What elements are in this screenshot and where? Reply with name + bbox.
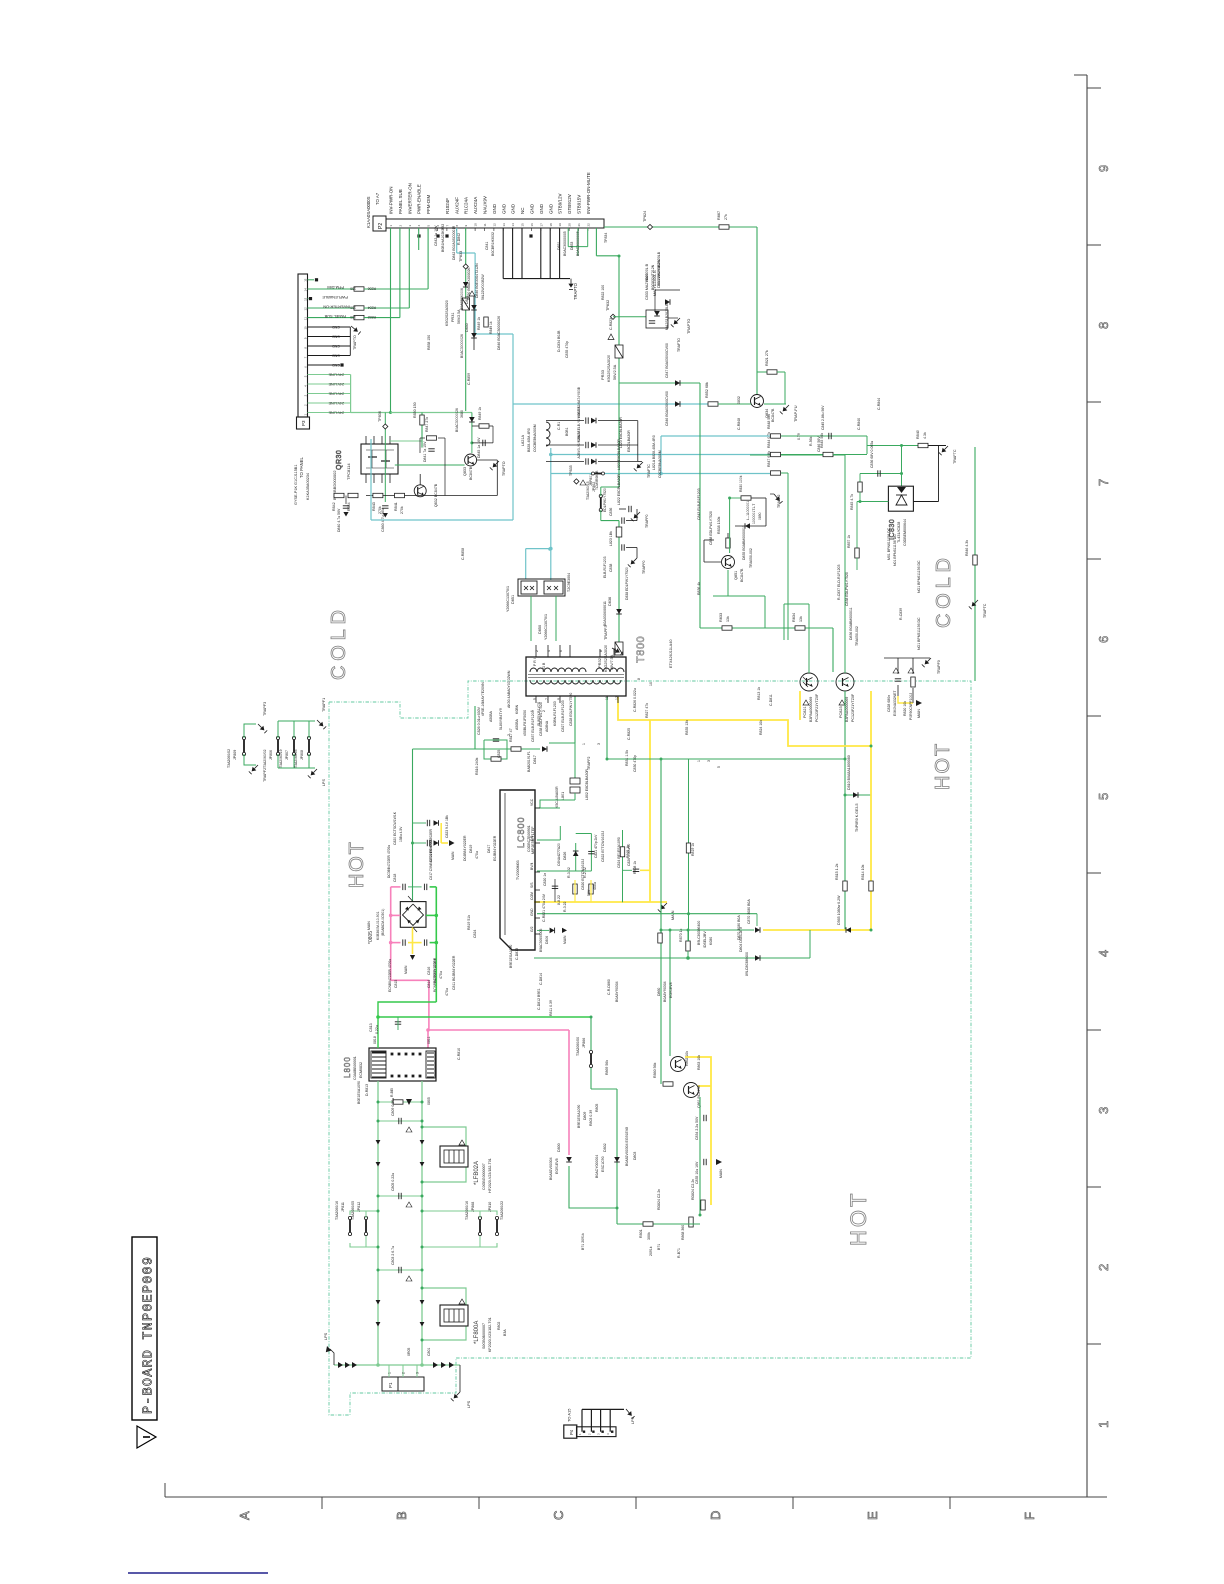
svg-text:LPS: LPS [467,1400,471,1408]
svg-text:ELB-R1F1203: ELB-R1F1203 [603,556,607,578]
svg-text:RD824 C2.2v: RD824 C2.2v [657,1189,661,1210]
svg-text:2091k: 2091k [649,1246,653,1256]
svg-text:24V-LINE: 24V-LINE [328,382,344,386]
svg-text:100: 100 [350,306,356,310]
svg-text:C820 ECTSCW1W1K: C820 ECTSCW1W1K [393,811,397,845]
svg-text:12: 12 [492,223,496,227]
svg-text:TP835: TP835 [569,465,573,476]
svg-text:TNP0R0 K.GE3-5: TNP0R0 K.GE3-5 [855,803,859,832]
svg-text:P0R90CNPF100J: P0R90CNPF100J [909,693,913,720]
svg-text:B0A82V00304 EG91EV8: B0A82V00304 EG91EV8 [625,1127,629,1166]
svg-text:11: 11 [304,317,308,320]
svg-text:T3A2060/00: T3A2060/00 [576,1037,580,1056]
svg-text:50V: 50V [587,889,591,896]
svg-text:R867: R867 [717,211,721,220]
svg-text:INV-PWR-ON-MUTE: INV-PWR-ON-MUTE [586,172,591,214]
svg-text:2: 2 [507,734,511,736]
svg-text:JP810: JP810 [488,1202,492,1212]
svg-text:D851: D851 [557,242,561,250]
svg-text:R852 68k: R852 68k [705,382,709,398]
svg-text:C-D812 B9E1: C-D812 B9E1 [537,988,541,1010]
svg-text:C841: C841 [485,242,489,250]
svg-text:R844 0.7k: R844 0.7k [767,432,771,448]
svg-text:R862 10k: R862 10k [685,1051,689,1066]
svg-text:C-R840: C-R840 [857,418,861,430]
svg-text:R819 51k: R819 51k [467,915,471,930]
svg-text:C823 9.1V 1Bk: C823 9.1V 1Bk [445,815,449,838]
svg-text:B0A030X00011: B0A030X00011 [603,601,607,626]
svg-text:TPC8114: TPC8114 [346,463,351,480]
svg-text:L800: L800 [343,1056,352,1078]
svg-text:R850 150: R850 150 [413,402,417,418]
svg-text:TRAFTC: TRAFTC [647,464,651,478]
svg-text:C835 10u 16V: C835 10u 16V [695,1161,699,1184]
svg-text:R833: R833 [719,613,723,622]
svg-text:R863 10k: R863 10k [697,1055,701,1070]
svg-text:R820 10k: R820 10k [903,701,907,716]
svg-text:NAUX9V: NAUX9V [483,196,488,214]
svg-text:R-56k: R-56k [809,436,813,446]
svg-text:PANEL SUB: PANEL SUB [398,189,403,214]
svg-text:D-C834 B0JB: D-C834 B0JB [557,330,561,352]
svg-text:JP807: JP807 [285,750,289,760]
svg-text:DC0BB4722ER 4700u: DC0BB4722ER 4700u [387,845,391,878]
svg-text:56V/2.5A: 56V/2.5A [613,364,617,380]
svg-text:C809 0.39u: C809 0.39u [391,1098,395,1116]
svg-text:7: 7 [1096,479,1111,486]
svg-text:P3: P3 [301,420,306,426]
svg-text:TRAPF2: TRAPF2 [777,495,781,508]
svg-text:R815 1.2k: R815 1.2k [835,863,839,880]
svg-text:EG91EV8: EG91EV8 [669,982,673,998]
svg-text:PWR-ENABLE: PWR-ENABLE [322,295,348,300]
svg-text:LPS: LPS [322,778,326,786]
svg-text:GND: GND [501,203,506,214]
svg-text:14: 14 [304,288,308,292]
svg-text:D817: D817 [533,755,537,764]
svg-text:T3A2060/02: T3A2060/02 [227,749,231,768]
svg-text:T3A2060/19: T3A2060/19 [279,749,283,768]
svg-text:PFM-DIM: PFM-DIM [327,285,344,290]
svg-text:10: 10 [304,326,308,330]
svg-text:C838 EDLPW1Y7520: C838 EDLPW1Y7520 [539,702,543,736]
svg-text:C825: C825 [497,750,501,758]
svg-text:5L80Y/B4TY9: 5L80Y/B4TY9 [499,708,503,730]
svg-text:E0K0NA332NET: E0K0NA332NET [893,691,897,716]
svg-text:T3A2060/16: T3A2060/16 [335,1201,339,1220]
svg-text:C828 E0LPW1Y7520: C828 E0LPW1Y7520 [569,693,573,726]
svg-text:S0GB0B000007: S0GB0B000007 [482,1323,486,1349]
svg-text:C0DBEM000644: C0DBEM000644 [903,519,907,546]
svg-text:T3A2060/02: T3A2060/02 [263,749,267,768]
svg-text:D830 B0ACX000026: D830 B0ACX000026 [467,267,471,300]
svg-text:K1KA35A00234: K1KA35A00234 [306,473,310,500]
svg-text:PR32: PR32 [597,657,602,668]
svg-text:C838 EDLPW1Y7520: C838 EDLPW1Y7520 [845,572,849,606]
svg-text:T2C9E3004: T2C9E3004 [567,573,571,592]
svg-text:D: D [708,1511,723,1520]
svg-text:9: 9 [557,698,561,700]
svg-text:R846 4.3k: R846 4.3k [965,540,969,556]
svg-text:1: 1 [582,743,586,745]
svg-text:LC800: LC800 [516,816,526,848]
svg-text:MAIN: MAIN [451,851,455,860]
svg-text:TRA050-002: TRA050-002 [855,626,859,646]
svg-text:PC821: PC821 [803,706,807,718]
svg-text:P2: P2 [378,223,384,229]
svg-text:GND: GND [539,203,544,214]
svg-text:B?1 2091k: B?1 2091k [581,1233,585,1250]
svg-text:B0AC30000026: B0AC30000026 [455,408,459,432]
svg-text:24V-LINE: 24V-LINE [328,372,344,376]
svg-text:R856: R856 [368,287,376,291]
svg-text:BAB20191F1: BAB20191F1 [527,751,531,772]
svg-text:TRAPTO: TRAPTO [502,461,506,476]
svg-text:AUX24F: AUX24F [454,197,459,214]
svg-text:D836 B0ABM000011: D836 B0ABM000011 [849,607,853,640]
svg-text:N01 BPN611156 DC: N01 BPN611156 DC [893,534,897,566]
svg-text:R813 1k: R813 1k [757,687,761,700]
svg-text:5: 5 [717,766,721,768]
svg-text:MAIN: MAIN [671,910,675,920]
svg-text:L823 E8CBLBA30R: L823 E8CBLBA30R [619,417,623,448]
svg-text:T800: T800 [635,636,647,663]
svg-text:S/S: S/S [530,882,534,888]
svg-text:C805 0.22u: C805 0.22u [391,1173,395,1191]
svg-text:B3PAA0000069: B3PAA0000069 [845,697,849,722]
svg-text:K5CJLBA00R: K5CJLBA00R [555,786,559,808]
svg-text:C814 B0HB84702ER: C814 B0HB84702ER [429,828,433,862]
svg-text:EDLPW1Y7520: EDLPW1Y7520 [603,488,607,512]
svg-text:ETX426J11LA40: ETX426J11LA40 [669,640,673,668]
svg-text:3680: 3680 [460,410,464,418]
svg-text:D800: D800 [557,1143,561,1152]
svg-text:R848 56k: R848 56k [767,414,771,429]
svg-text:KF2020-V23/182-T01: KF2020-V23/182-T01 [488,1317,492,1352]
svg-text:D851: D851 [511,595,515,604]
svg-text:K080: K080 [709,937,713,945]
svg-text:D840 4.7u 56V: D840 4.7u 56V [337,508,341,532]
svg-text:G/2: G/2 [530,926,534,932]
svg-text:D870 3080 B0A: D870 3080 B0A [737,915,741,940]
svg-text:C870 3080 B0A: C870 3080 B0A [747,899,751,924]
svg-text:NC: NC [520,207,525,214]
svg-text:Q833: Q833 [463,467,467,476]
svg-text:B3PAA0000069: B3PAA0000069 [809,697,813,722]
svg-text:M01 BPN611156 DC: M01 BPN611156 DC [887,527,891,560]
svg-text:C-R821 470u 24V: C-R821 470u 24V [542,893,546,922]
svg-text:JP808: JP808 [300,750,304,760]
svg-text:R849 1k: R849 1k [489,321,493,334]
svg-text:22: 22 [586,223,590,227]
svg-text:TP833: TP833 [459,251,463,262]
svg-text:19: 19 [558,223,562,227]
svg-text:R-3.02: R-3.02 [567,867,571,878]
svg-text:6: 6 [1096,636,1111,643]
svg-text:R852: R852 [368,315,376,319]
svg-text:24V-LINE: 24V-LINE [328,410,344,414]
svg-text:D802: D802 [603,1143,607,1152]
svg-text:R840: R840 [916,430,920,439]
svg-text:P-BOARD TNP0EP009: P-BOARD TNP0EP009 [142,1256,157,1414]
svg-text:K5G2S2SA3020: K5G2S2SA3020 [445,300,449,326]
svg-text:B: B [394,1511,409,1520]
svg-text:K0B360M-010-901: K0B360M-010-901 [376,911,380,940]
svg-text:C-R810: C-R810 [457,1048,461,1060]
svg-text:R1C24A: R1C24A [464,197,469,214]
svg-text:C803 2 6.7u: C803 2 6.7u [391,1246,395,1265]
svg-text:0R05: 0R05 [407,1348,411,1356]
svg-text:TRA050-002: TRA050-002 [749,548,753,568]
svg-text:INV-PWR-ON: INV-PWR-ON [389,187,394,215]
svg-text:R802: R802 [497,1322,501,1330]
svg-text:27k: 27k [724,214,728,220]
svg-text:R849 1k: R849 1k [478,407,482,420]
svg-text:TO PANEL: TO PANEL [299,457,304,478]
svg-text:89LC80386400: 89LC80386400 [745,952,749,976]
svg-text:C842 1u 16V: C842 1u 16V [434,225,438,246]
svg-text:#50BLF81F5050: #50BLF81F5050 [523,710,527,736]
svg-text:6: 6 [559,650,563,652]
svg-text:11: 11 [605,696,609,700]
svg-text:0811: 0811 [427,1036,431,1044]
svg-text:JP868: JP868 [471,1202,475,1212]
svg-text:B0E1E0A1090: B0E1E0A1090 [357,1081,361,1104]
svg-text:JP809: JP809 [233,750,237,760]
svg-text:1: 1 [697,760,701,762]
svg-text:C835 470p: C835 470p [565,341,569,358]
svg-text:HOT: HOT [932,742,954,790]
svg-text:L821A: L821A [521,435,525,446]
svg-text:15: 15 [521,223,525,227]
svg-text:HOT: HOT [346,840,368,888]
svg-text:470u: 470u [475,851,479,859]
svg-text:T3A2060/05: T3A2060/05 [351,1201,355,1220]
svg-text:B0B1HA102KBB2: B0B1HA102KBB2 [441,224,445,252]
svg-text:C: C [551,1511,566,1520]
svg-text:C-R848: C-R848 [737,418,741,430]
svg-text:L--11000001: L--11000001 [746,501,750,520]
svg-text:C6NA4Z77A20: C6NA4Z77A20 [557,843,561,866]
svg-text:E8C0LBA30R: E8C0LBA30R [627,430,631,452]
svg-text:B0A8Y90304: B0A8Y90304 [663,981,667,1002]
svg-text:HF2020-V23/182-T01: HF2020-V23/182-T01 [488,1158,492,1193]
svg-text:4: 4 [1096,950,1111,957]
svg-text:56L22W000B2W: 56L22W000B2W [657,259,661,286]
svg-text:P R I: P R I [533,658,537,666]
svg-text:270k: 270k [400,506,404,514]
svg-text:TRAPF3: TRAPF3 [263,702,267,716]
svg-text:13: 13 [502,223,506,227]
svg-text:56L22W000B2W: 56L22W000B2W [481,274,485,300]
svg-text:GND: GND [530,908,534,916]
svg-text:C836 68V 0.065u: C836 68V 0.065u [870,441,874,468]
svg-text:R-B71: R-B71 [677,1248,681,1258]
svg-text:D809: D809 [583,1112,587,1120]
svg-text:C845 2.86u 56V: C845 2.86u 56V [821,405,825,430]
svg-text:GTB912V: GTB912V [567,194,572,214]
svg-text:R858 150: R858 150 [427,335,431,350]
svg-text:R834: R834 [792,613,796,622]
svg-text:R849 1k: R849 1k [477,317,481,330]
svg-text:C814: C814 [427,980,431,988]
svg-text:TRAFTC: TRAFTC [953,449,957,464]
svg-text:C834 2.2u 50V: C834 2.2u 50V [695,1116,699,1140]
svg-text:1000001T1-T: 1000001T1-T [752,504,756,524]
svg-text:D845 1a 16V: D845 1a 16V [477,437,481,458]
svg-text:R805: R805 [595,1104,599,1112]
svg-text:(B0ABCM-0C901): (B0ABCM-0C901) [381,909,385,936]
svg-text:QR30: QR30 [336,450,343,470]
svg-text:R847 27k: R847 27k [425,417,429,432]
svg-text:470u: 470u [445,988,449,996]
svg-text:D819: D819 [469,845,473,853]
svg-text:13k: 13k [799,616,803,622]
svg-text:C847 B0A030X0CV00: C847 B0A030X0CV00 [665,343,669,378]
svg-text:STB915V: STB915V [577,195,582,214]
svg-text:A50BA: A50BA [489,710,493,722]
svg-text:13: 13 [304,297,308,301]
svg-text:C837 ELB-R1F1203: C837 ELB-R1F1203 [531,710,535,742]
svg-text:R824 10k: R824 10k [759,720,763,735]
svg-text:GND: GND [332,325,340,329]
svg-text:C827 ELB-R1F1203: C827 ELB-R1F1203 [561,700,565,732]
svg-text:TO A15: TO A15 [567,1408,572,1422]
svg-text:L821A B828-40M-4R0: L821A B828-40M-4R0 [652,435,656,470]
svg-text:PR33: PR33 [600,369,605,380]
svg-text:TL431/IC828: TL431/IC828 [897,522,901,543]
svg-text:D-R813: D-R813 [365,1084,369,1096]
svg-text:C824: C824 [473,930,477,938]
svg-text:TRAFTO: TRAFTO [677,338,681,352]
svg-text:D826: D826 [563,852,567,860]
svg-text:K G B: K G B [542,662,546,672]
svg-text:GND: GND [332,363,340,367]
svg-text:3A60: 3A60 [645,274,649,282]
svg-text:TP836: TP836 [378,411,382,422]
svg-text:4.3k: 4.3k [923,432,927,439]
svg-text:0.79: 0.79 [797,433,801,440]
svg-text:T3A2060/05: T3A2060/05 [294,749,298,768]
svg-text:100: 100 [350,287,356,291]
svg-text:D806: D806 [545,936,549,944]
svg-text:0832: 0832 [737,396,741,404]
svg-text:COLD: COLD [328,605,350,680]
svg-text:8-8.22: 8-8.22 [557,895,561,905]
svg-text:56V/2.5A: 56V/2.5A [457,309,461,324]
svg-text:C0CBEBNA300M: C0CBEBNA300M [533,424,537,452]
svg-text:R847 6.8k: R847 6.8k [767,451,771,467]
svg-text:3: 3 [1096,1107,1111,1114]
svg-text:R814 10k: R814 10k [861,864,865,880]
svg-text:JP811: JP811 [341,1202,345,1212]
svg-text:0.22u: 0.22u [375,1025,379,1034]
svg-text:D/8: D/8 [530,836,534,841]
svg-text:D846 B0E33S4T212N: D846 B0E33S4T212N [475,263,479,298]
svg-text:VCC: VCC [530,798,534,806]
svg-text:D860: D860 [657,988,661,996]
svg-text:Y2066C13070/1: Y2066C13070/1 [506,586,510,612]
svg-text:TRAPTO: TRAPTO [687,319,691,334]
svg-text:R857 1k: R857 1k [847,535,851,548]
svg-text:C830 470p: C830 470p [633,755,637,772]
svg-text:GND: GND [332,344,340,348]
svg-text:MAIN: MAIN [917,709,921,718]
svg-text:5: 5 [533,698,537,700]
svg-text:14: 14 [511,223,515,227]
svg-text:2: 2 [1096,1264,1111,1271]
svg-text:C-R859: C-R859 [467,373,471,385]
svg-text:R841: R841 [394,502,398,511]
svg-text:R-3.22: R-3.22 [563,901,567,912]
svg-text:D850: D850 [538,625,542,634]
svg-text:JRP801: JRP801 [589,474,593,486]
svg-text:3: 3 [416,1372,420,1374]
svg-text:R842: R842 [332,502,336,511]
svg-text:PANEL SUB: PANEL SUB [324,314,346,319]
svg-text:TP832: TP832 [606,300,610,311]
svg-text:470u: 470u [439,971,443,979]
svg-text:C826 1.30u/50: C826 1.30u/50 [627,844,631,866]
svg-text:/DSEL2BV: /DSEL2BV [703,931,707,948]
svg-text:TRAPTC: TRAPTC [983,603,987,618]
svg-text:R836 4k: R836 4k [697,582,701,595]
svg-text:F: F [1022,1512,1037,1520]
svg-text:*LF800A: *LF800A [474,1321,480,1344]
svg-text:B9E1ESA1090: B9E1ESA1090 [577,1105,581,1128]
svg-text:TRAPF0: TRAPF0 [937,660,941,674]
svg-text:TRAPF2: TRAPF2 [263,768,267,782]
svg-text:R821 27k: R821 27k [765,350,769,366]
svg-text:T3A2060/22: T3A2060/22 [500,1201,504,1220]
svg-text:B9E1ESA1090: B9E1ESA1090 [509,945,513,968]
svg-text:15: 15 [304,278,308,282]
svg-text:9: 9 [1096,165,1111,172]
svg-text:B0AC30000005: B0AC30000005 [563,231,567,256]
svg-text:TCM0R0K0B: TCM0R0K0B [595,470,599,490]
svg-text:B3A: B3A [503,1329,507,1336]
svg-text:R868 360: R868 360 [681,1225,685,1240]
svg-text:A08NA: A08NA [545,720,549,732]
svg-text:0805: 0805 [427,1097,431,1105]
svg-text:8: 8 [599,650,603,652]
svg-text:C843 ELB-R1F1203: C843 ELB-R1F1203 [697,488,701,520]
svg-text:R808 1k: R808 1k [633,861,637,874]
svg-text:20: 20 [568,223,572,227]
svg-text:C-R858: C-R858 [461,548,465,560]
svg-text:R838 130k: R838 130k [717,516,721,534]
svg-text:L822 E8CBLBA30R: L822 E8CBLBA30R [617,474,621,505]
svg-text:B0JB84Y022ER: B0JB84Y022ER [433,957,437,983]
svg-text:Q832 BC847B: Q832 BC847B [434,483,438,507]
svg-text:L823 1Bk: L823 1Bk [609,531,613,546]
svg-text:B0AC30000005: B0AC30000005 [576,231,580,256]
svg-text:BC847B: BC847B [740,568,744,582]
svg-text:C836: C836 [609,508,613,516]
svg-text:8: 8 [1096,322,1111,329]
svg-text:R-C839: R-C839 [899,608,903,620]
svg-text:B0A030X0006: B0A030X0006 [460,288,464,310]
svg-text:21: 21 [577,223,581,227]
svg-text:B0CBR1H3032: B0CBR1H3032 [491,232,495,256]
svg-text:PR31: PR31 [451,313,455,323]
svg-text:C-R826 0.022u: C-R826 0.022u [633,688,637,712]
svg-text:JP806: JP806 [269,750,273,760]
svg-text:PC123F21YTZ0F: PC123F21YTZ0F [851,693,855,722]
svg-text:INVERTER-ON: INVERTER-ON [323,305,350,310]
svg-text:3: 3 [597,743,601,745]
svg-text:C813: C813 [369,1023,373,1032]
